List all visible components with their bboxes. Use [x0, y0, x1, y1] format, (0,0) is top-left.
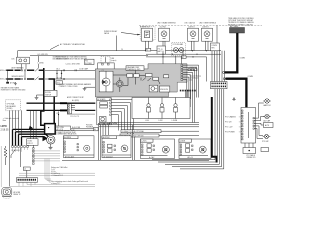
- node: junction dots: [96, 70, 97, 71]
- wire: note leader: [121, 33, 140, 35]
- wire: internal links: [113, 75, 160, 86]
- connector J11 transaxle block: [211, 82, 228, 89]
- connector C34 thick junction block: [45, 124, 56, 134]
- svg-text:COMM: COMM: [248, 76, 254, 78]
- connector C29 comb pins: [12, 146, 29, 152]
- wire: center bus 2: [99, 124, 199, 126]
- connector C13 ECU top connector: [98, 63, 115, 70]
- wire: DIS relay drop: [17, 51, 19, 57]
- node: line label box: [146, 48, 151, 51]
- wire: block feeds from top: [212, 51, 225, 82]
- resistor R3 internal: [164, 75, 169, 78]
- svg-text:MTR 12: MTR 12: [27, 143, 33, 145]
- node: link dots: [162, 54, 163, 55]
- svg-text:AC TWIN AIR / VIN AIRE INT AB: AC TWIN AIR / VIN AIRE INT AB: [60, 43, 85, 46]
- svg-text:PTO POWER: PTO POWER: [225, 132, 236, 134]
- wire: board corner 5: [111, 112, 121, 132]
- svg-text:LHD / STEER WHEELS: LHD / STEER WHEELS: [199, 22, 216, 24]
- wire: board corner 3: [111, 106, 127, 134]
- svg-text:B2: B2: [182, 57, 184, 59]
- svg-text:1 x B: 1 x B: [51, 169, 54, 171]
- svg-text:L2: L2: [56, 113, 58, 115]
- svg-text:INTERIOR TO WHITE GROUND: INTERIOR TO WHITE GROUND: [1, 89, 26, 91]
- svg-text:COMM: COMM: [240, 58, 246, 60]
- wire: mid long 1: [19, 172, 95, 174]
- svg-text:B4: B4: [94, 129, 96, 131]
- ground G4 motor: [48, 144, 52, 149]
- connector C27 pto bottom box: [243, 143, 256, 159]
- node: splice dot row: [56, 73, 57, 74]
- wire: drop x20.6: [20, 148, 22, 167]
- svg-text:LINE: LINE: [111, 58, 114, 60]
- svg-text:SENSOR GROUP: SENSOR GROUP: [12, 76, 24, 78]
- solenoid L2: [159, 28, 170, 41]
- svg-text:SWITCH: SWITCH: [45, 94, 51, 96]
- wire: L2 drop: [58, 111, 60, 127]
- ground G5: [83, 87, 87, 90]
- wire: connector stubs: [71, 105, 75, 110]
- cable W2 thick ground feed: [49, 79, 55, 124]
- wire: board corner 1: [111, 100, 133, 137]
- lamp DS3: [262, 134, 270, 143]
- connector C35 mini pins: [188, 69, 197, 71]
- solenoid L3: [188, 28, 199, 41]
- connector C9 optional dashed: [6, 100, 21, 111]
- wire: bus drops through comb: [31, 110, 37, 147]
- wire: inter-box verticals: [99, 125, 109, 160]
- svg-text:41: 41: [161, 49, 163, 51]
- svg-text:B-40 CONN: B-40 CONN: [72, 127, 80, 129]
- connector U2 AT/MT board: [97, 98, 111, 125]
- wire: bottom long 1: [27, 184, 95, 186]
- motor M3 inner: [99, 71, 113, 92]
- pump box P2: [179, 139, 211, 159]
- svg-text:BLOWN: BLOWN: [45, 92, 51, 94]
- node: splice marks on W4: [60, 102, 67, 104]
- cable W11 comb bar 4: [22, 137, 48, 146]
- wire: pto right corner 5: [254, 129, 263, 139]
- cable W6 thick comm right-down: [226, 79, 247, 108]
- wire: splice bus 1: [6, 69, 43, 71]
- wire: corner drop 2: [158, 89, 217, 162]
- relay K2 DIS: [12, 57, 30, 69]
- svg-text:F-208: F-208: [159, 120, 163, 122]
- wire: mid long 2: [19, 174, 95, 176]
- svg-text:4 B Lx: 4 B Lx: [51, 171, 56, 173]
- cable W7 thick harness down: [212, 97, 217, 163]
- connector U3 sensor box: [132, 98, 190, 119]
- svg-text:COMPU: COMPU: [211, 45, 218, 47]
- wire: pto right corner 1: [254, 103, 263, 118]
- connector C33 small box: [23, 167, 30, 178]
- label bar LB2: [120, 134, 159, 137]
- wire: ECU pin corner 7: [183, 80, 187, 98]
- cable W3 thick bus upper: [27, 102, 96, 104]
- wire: drop x116.5: [116, 36, 118, 51]
- connector U4 PTO block: [241, 108, 256, 144]
- connector C20 internal: [160, 86, 170, 92]
- wire: strip fanout: [34, 151, 60, 161]
- switch box S3 blower: [44, 90, 57, 96]
- wire: pto right corner 3: [254, 123, 263, 125]
- wire: secondary feed y55.7: [30, 55, 148, 57]
- svg-text:F2: F2: [146, 50, 148, 52]
- cable W1 thick battery feed: [41, 68, 45, 125]
- wire: corner drop 1: [152, 89, 215, 160]
- wire: board corner 4: [111, 109, 124, 133]
- resistor R2: [146, 74, 159, 81]
- connector C14 dashed valve: [101, 56, 117, 63]
- motor M1: [47, 136, 55, 144]
- wire: ECU pin corner 6: [183, 77, 189, 97]
- wire: main feed bus y50.7: [18, 50, 221, 52]
- solenoid L4: [202, 28, 213, 41]
- wire: left drop to horn: [9, 110, 11, 186]
- connector C17 comm: [211, 25, 220, 50]
- wire: ECU pin corner 4: [183, 72, 193, 122]
- cable W8 comb bar 1: [13, 129, 45, 145]
- wire: row1 extension: [45, 69, 97, 71]
- wire: board corner 2: [111, 103, 130, 136]
- wire: dashed boundary top: [139, 24, 262, 26]
- connector C19 small pair: [127, 74, 139, 77]
- wire: corner drop 4: [172, 89, 222, 167]
- ground G1: [14, 82, 17, 85]
- svg-text:F30: F30: [85, 61, 88, 63]
- svg-text:C-24 4 x 4WD CONN: C-24 4 x 4WD CONN: [66, 63, 80, 65]
- wire: legend drop wires: [45, 159, 51, 183]
- fan M2 cooling dashed: [172, 43, 186, 56]
- wire: bus interconnect drops: [8, 70, 62, 79]
- connector J10 power out: [140, 26, 155, 41]
- wire: antenna leader diagonal: [50, 45, 59, 50]
- connector C30 comb label box: [27, 139, 38, 146]
- svg-text:2/18.05: 2/18.05: [1, 129, 10, 132]
- relay box A2: [102, 136, 131, 159]
- svg-text:4 B Ly/B a.m.: 4 B Ly/B a.m.: [51, 173, 61, 175]
- connector C24 board bottom pins: [98, 123, 110, 125]
- pump box P1: [141, 139, 175, 159]
- wire: optional drops to comb: [13, 110, 22, 136]
- svg-text:WIRING STD: WIRING STD: [247, 157, 257, 159]
- svg-text:Bxxx: Bxxx: [3, 120, 7, 122]
- svg-text:PTO 12V: PTO 12V: [225, 122, 232, 124]
- thermistor RT3: [174, 98, 178, 119]
- thermistor RT1: [147, 98, 151, 119]
- cable W12 wedge into motor: [43, 136, 49, 142]
- wire: pto right corner 4: [254, 126, 263, 136]
- wire: row2 extension: [45, 78, 97, 80]
- node: annotation arrow: [29, 126, 34, 131]
- svg-text:PTO LMP: PTO LMP: [262, 141, 269, 143]
- svg-text:J-260/B: J-260/B: [180, 141, 186, 143]
- svg-text:+ C-xxxxxx/5 X-X: + C-xxxxxx/5 X-X: [51, 175, 63, 177]
- connector C15 small: [56, 81, 63, 85]
- label bar LB1: [121, 130, 161, 133]
- node: comm terminal circle 2: [223, 78, 225, 80]
- wire: fan drops: [176, 56, 182, 64]
- wire: corner drop 5: [180, 89, 224, 169]
- wire: ECU pin corner 1: [183, 65, 199, 97]
- wire: right verticals to pumps: [133, 125, 135, 160]
- wire: splice bus 2: [6, 78, 43, 80]
- svg-text:L-2049B: L-2049B: [172, 120, 178, 122]
- svg-text:L-204: L-204: [145, 120, 149, 122]
- wire: center bus 3: [99, 126, 199, 128]
- inductor T1 coil: [117, 78, 124, 92]
- svg-text:1 2 3 4 5 6 7 8: 1 2 3 4 5 6 7 8: [70, 116, 79, 118]
- switch S1 inline: [35, 56, 39, 72]
- wire: pump enclosure bottom: [62, 159, 209, 161]
- lamp DS2: [263, 114, 271, 122]
- connector C31 legend box: [56, 126, 71, 131]
- cable W3b thick bus lower: [27, 109, 96, 111]
- connector C28 small right: [261, 148, 269, 152]
- connector C21 ECU right pins: [181, 64, 183, 80]
- wire: ECU pin corner 5: [183, 75, 191, 99]
- resistor R1: [4, 146, 7, 165]
- connector C10 AT/MT pin strip: [67, 96, 94, 118]
- connector C36 small: [94, 127, 99, 131]
- wire: drop x163: [162, 51, 164, 64]
- node: link label box: [182, 56, 187, 59]
- node: feed junction dots: [145, 50, 146, 51]
- wire: bottom long 2: [10, 185, 95, 187]
- wire: far-left vertical: [0, 146, 2, 187]
- thermistor RT2: [160, 98, 164, 119]
- svg-text:PTO +12V: PTO +12V: [225, 127, 233, 129]
- connector C10b tick row: [68, 114, 94, 115]
- svg-text:4WD ECM: 4WD ECM: [160, 89, 168, 91]
- cable W10 comb bar 3: [19, 134, 49, 145]
- node: ECU title box: [126, 66, 144, 71]
- wire: ECU pin corner 3: [183, 70, 195, 123]
- connector C32 vertical strip: [33, 148, 35, 165]
- svg-text:(unique): (unique): [111, 60, 117, 62]
- connector ground stub: [7, 80, 9, 82]
- wire: bar tails: [159, 131, 199, 135]
- wire: pto right corner 2: [254, 117, 263, 121]
- relay K5 internal: [149, 85, 158, 92]
- switch S2 inline: [35, 77, 39, 81]
- wire: junction drop: [85, 70, 97, 87]
- wire: solenoid drops: [146, 41, 209, 51]
- node: comm terminal circle: [223, 71, 225, 73]
- connector J12 bottom row: [17, 178, 38, 183]
- svg-text:x-3: x-3: [24, 169, 26, 171]
- wire: ECU pin corner 2: [183, 68, 197, 98]
- ground G2: [35, 95, 45, 99]
- svg-text:HPD: HPD: [1, 124, 8, 128]
- connector C18 cable source dark: [230, 25, 245, 33]
- svg-text:(DCMU): (DCMU): [7, 108, 13, 110]
- svg-text:BLOWER: BLOWER: [85, 63, 92, 65]
- wire: left bus extension: [71, 129, 98, 131]
- wire: corner drop 3: [165, 89, 219, 165]
- switch S4 internal: [143, 78, 152, 82]
- connector C22 ECU bottom pins: [180, 90, 196, 107]
- wire: center bus 1: [99, 122, 199, 124]
- wire: upper link y56.9: [146, 57, 207, 82]
- relay box A1: [64, 136, 95, 159]
- cable W5 thick comm down-left: [225, 33, 238, 72]
- wire: PTO label leaders: [239, 117, 242, 132]
- svg-text:J-250/C: J-250/C: [141, 141, 147, 143]
- connector C23 board right pins: [110, 99, 112, 116]
- horn B1: [2, 188, 21, 199]
- connector C26 ALTS: [264, 123, 274, 128]
- wire: drop x183: [182, 51, 184, 57]
- wire: board corner 6: [111, 115, 118, 131]
- wire: upper link y54.2: [146, 53, 221, 55]
- svg-text:CONNECT / TWIN 4 CONN: CONNECT / TWIN 4 CONN: [59, 86, 78, 88]
- switch S5: [11, 150, 15, 158]
- lamp DS1: [263, 99, 271, 107]
- svg-text:PJB 4WD: PJB 4WD: [86, 124, 93, 126]
- wire: row drops: [19, 182, 35, 186]
- fuse F1: [157, 46, 166, 54]
- svg-text:H.D. 4WD SW: H.D. 4WD SW: [38, 54, 49, 56]
- connector C25 mini row: [108, 122, 117, 123]
- ground G3: [232, 98, 235, 101]
- op-amp U1 transaxle ECU gray module: [95, 64, 187, 97]
- cable W9 comb bar 2: [16, 132, 45, 146]
- fuse F30 blower box: [85, 59, 95, 65]
